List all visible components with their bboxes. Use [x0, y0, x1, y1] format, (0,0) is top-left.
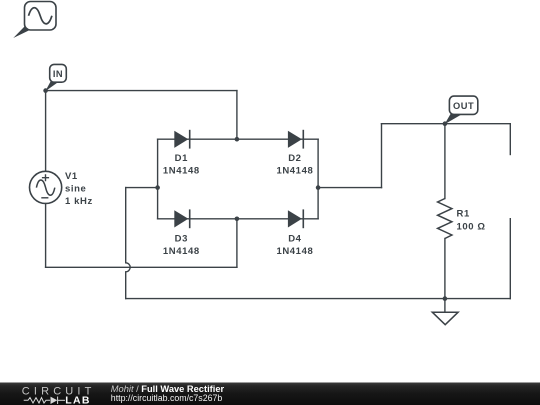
svg-text:D1: D1 — [175, 153, 188, 164]
svg-text:IN: IN — [53, 69, 63, 79]
svg-text:D4: D4 — [288, 233, 301, 244]
svg-text:http://circuitlab.com/c7s267b: http://circuitlab.com/c7s267b — [111, 393, 223, 403]
wire bridge left vertical — [157, 139, 159, 219]
sine flag icon top left — [13, 2, 56, 39]
footer bar — [0, 383, 540, 405]
label D3 — [163, 233, 200, 257]
svg-text:1 kHz: 1 kHz — [65, 196, 93, 207]
wire R1 bottom lead — [444, 239, 446, 299]
svg-text:LAB: LAB — [65, 394, 90, 405]
wire top right to stub — [382, 123, 511, 125]
svg-text:1N4148: 1N4148 — [163, 165, 200, 176]
wire V1 bottom lead — [45, 204, 47, 268]
node IN flag — [45, 64, 66, 91]
label D4 — [276, 233, 313, 257]
label D1 — [163, 153, 200, 177]
diode D1 — [174, 130, 189, 149]
wire top from IN corner to bridge top — [46, 90, 237, 92]
diode D4 — [288, 209, 303, 228]
svg-text:D3: D3 — [175, 233, 188, 244]
label D2 — [276, 153, 313, 177]
wire ground stem — [444, 299, 446, 313]
wire bottom from V1 to bridge bottom — [46, 266, 237, 268]
footer logo CIRCUIT LAB — [22, 386, 96, 405]
svg-text:1N4148: 1N4148 — [163, 246, 200, 257]
wire right open stub upper — [509, 124, 511, 155]
wire right open stub lower — [509, 219, 511, 299]
wire left drop with hop over — [126, 188, 131, 299]
wire R1 top lead — [444, 124, 446, 199]
node dot top rail — [235, 137, 240, 142]
svg-text:V1: V1 — [65, 171, 78, 182]
node dot at IN — [43, 88, 48, 93]
wire V1 top lead — [45, 91, 47, 172]
resistor R1 — [438, 199, 452, 239]
node dot at OUT — [443, 121, 448, 126]
wire ground rail — [126, 298, 511, 300]
node OUT flag — [445, 96, 478, 124]
wire bridge top rail — [158, 138, 319, 140]
svg-text:OUT: OUT — [453, 101, 474, 111]
node dot bridge right — [316, 185, 321, 190]
svg-text:100 Ω: 100 Ω — [457, 222, 486, 233]
wire left junction stub — [126, 187, 158, 189]
svg-text:D2: D2 — [288, 153, 301, 164]
diode D2 — [288, 130, 303, 149]
svg-text:1N4148: 1N4148 — [276, 165, 313, 176]
node dot ground — [443, 296, 448, 301]
label V1 value — [65, 171, 93, 207]
node dot bottom rail — [235, 217, 240, 222]
diode D3 — [174, 209, 189, 228]
wire bridge right vertical — [317, 139, 319, 219]
node dot bridge left — [155, 185, 160, 190]
wire right junction to riser — [318, 187, 381, 189]
voltage source V1 — [29, 171, 61, 203]
wire riser up — [381, 124, 383, 188]
svg-text:sine: sine — [65, 184, 86, 195]
svg-text:R1: R1 — [457, 209, 470, 220]
wire bridge bottom rail — [158, 218, 319, 220]
svg-text:1N4148: 1N4148 — [276, 246, 313, 257]
ground — [432, 312, 458, 325]
wire down to top rail node — [236, 91, 238, 140]
label R1 value — [457, 209, 486, 233]
wire up to bottom rail node — [236, 219, 238, 267]
